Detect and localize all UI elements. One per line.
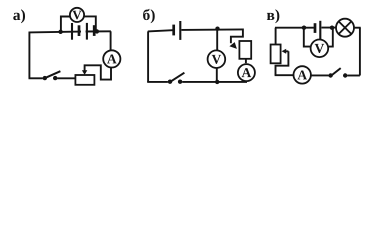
wire v slider <box>276 51 289 75</box>
wire rheostat b to ammeter <box>245 59 247 63</box>
wire b bend to rheostat slider <box>231 29 243 44</box>
switch S1 terminal left <box>43 76 47 80</box>
battery GB1 cell2 long plate <box>86 23 88 40</box>
switch S3 terminal left <box>328 73 332 77</box>
switch S2 terminal right <box>178 80 182 84</box>
voltmeter V1 circle <box>70 8 84 22</box>
voltmeter V2 circle <box>208 50 226 68</box>
battery GB2 long plate <box>179 21 181 40</box>
wire v right <box>359 28 361 76</box>
rheostat R1 body <box>75 75 94 85</box>
wire a right down to ammeter <box>110 31 112 50</box>
wire v top after lamp <box>354 27 361 29</box>
wire voltmeter b to bottom <box>216 68 218 82</box>
label b) <box>143 9 155 23</box>
wire a bottom to rheostat <box>57 77 75 79</box>
wire voltmeter b drop <box>216 29 218 51</box>
switch S1 terminal right <box>53 76 57 80</box>
lamp HL1 cross <box>339 22 351 34</box>
node a-right junction <box>95 29 99 33</box>
switch S2 blade <box>171 73 184 82</box>
wire voltmeter a branch left <box>61 17 70 32</box>
ammeter A1 circle <box>103 50 120 67</box>
battery GB3 short plate <box>314 23 317 33</box>
battery GB2 short plate <box>172 25 175 36</box>
wire voltmeter a branch right <box>84 16 96 31</box>
battery GB1 cell1 short plate <box>78 25 81 36</box>
wire b top <box>148 29 243 31</box>
wire a left <box>28 32 30 78</box>
wire v bottom left <box>275 74 294 76</box>
node v-left junction <box>302 26 306 30</box>
wire b bottom left <box>147 81 168 83</box>
rheostat R2 body <box>239 41 251 59</box>
wire a top <box>29 31 111 32</box>
wire v bottom right <box>347 75 360 77</box>
switch S2 terminal left <box>168 80 172 84</box>
ammeter A3 circle <box>294 66 311 83</box>
wire ammeter v to switch <box>311 74 329 76</box>
rheostat R3 body <box>271 45 281 64</box>
wire voltmeter v branch right <box>328 28 333 47</box>
voltmeter V1 letter <box>72 11 81 20</box>
label a) <box>13 9 25 23</box>
ammeter A3 letter <box>297 70 307 79</box>
voltmeter V3 circle <box>311 40 329 58</box>
battery GB3 long plate <box>319 21 321 40</box>
wire v top <box>275 27 336 29</box>
battery GB1 cell1 long plate <box>71 23 73 40</box>
node b-top junction <box>215 27 219 31</box>
ammeter A1 letter <box>107 54 117 63</box>
wire voltmeter v branch left <box>304 28 311 47</box>
wire ammeter a to rheostat slider <box>85 65 111 79</box>
ammeter A2 letter <box>242 68 252 77</box>
node a-left junction <box>58 30 62 34</box>
rheostat R2 slider arrowhead <box>229 42 237 49</box>
wire b bottom right <box>182 81 247 83</box>
node b-bottom junction <box>215 80 219 84</box>
ammeter A2 circle <box>238 64 255 81</box>
wire a bottom left <box>29 77 43 79</box>
rheostat R3 slider arrowhead <box>282 49 287 54</box>
voltmeter V3 letter <box>315 44 324 53</box>
label v) <box>267 9 279 23</box>
node v-right junction <box>330 26 334 30</box>
battery GB1 cell2 short plate <box>93 25 96 36</box>
switch S3 blade <box>332 68 341 75</box>
rheostat R1 slider arrowhead <box>82 70 87 75</box>
wire v left down <box>275 28 277 45</box>
voltmeter V2 letter <box>212 55 221 64</box>
wire b left <box>147 31 149 82</box>
switch S1 blade <box>46 71 61 78</box>
switch S3 terminal right <box>343 73 347 77</box>
lamp HL1 circle <box>336 19 354 37</box>
